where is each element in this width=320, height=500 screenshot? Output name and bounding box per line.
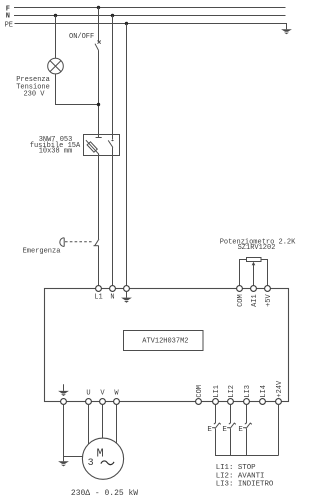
wire U to motor [88, 404, 90, 446]
terminal COM logic [196, 399, 202, 405]
wire LI1 down to contact [215, 404, 217, 423]
svg-text:V: V [100, 390, 105, 398]
svg-text:LI3: LI3 [244, 385, 252, 398]
ground symbol above earth terminal inside block [63, 384, 65, 391]
svg-text:COM: COM [196, 385, 204, 398]
wire emergency to L1 terminal [98, 246, 100, 289]
svg-text:LI1: LI1 [213, 385, 221, 398]
wire F phase bus [14, 7, 286, 9]
wire W to motor [116, 404, 118, 446]
wire LI3 contact to bus [246, 429, 248, 456]
wire PE branch down to drive [126, 24, 128, 289]
svg-text:U: U [86, 390, 90, 398]
node PE junction [125, 22, 128, 25]
svg-text:N: N [6, 13, 10, 21]
svg-text:LI3: INDIETRO: LI3: INDIETRO [216, 481, 274, 489]
ground PE arrow top right [281, 29, 292, 34]
emergency stop S2 mushroom head [60, 238, 99, 247]
pot wiper arrowhead [252, 262, 256, 266]
wire N phase bus [14, 15, 286, 17]
terminal LI1 [213, 399, 219, 405]
terminal U [86, 399, 92, 405]
wire V to motor [102, 404, 104, 440]
terminal LI3 [244, 399, 250, 405]
terminal LI4 [260, 399, 266, 405]
node N junction drive feed [111, 14, 114, 17]
terminal V [100, 399, 106, 405]
terminal LI2 [228, 399, 234, 405]
wire fuse switch out to N terminal [112, 148, 114, 289]
wire LI3 down to contact [246, 404, 248, 423]
node F junction [97, 6, 100, 9]
svg-text:N: N [110, 293, 114, 301]
svg-text:L1: L1 [94, 293, 102, 301]
wire lamp bottom to switch line [56, 74, 99, 105]
wire LI2 contact to bus [230, 429, 232, 456]
wire fuse out to emergency contact [98, 154, 100, 239]
svg-text:W: W [114, 390, 119, 398]
node N junction lamp tap [54, 14, 57, 17]
lamp P1 Presenza Tensione [48, 58, 64, 74]
svg-text:230 V: 230 V [23, 91, 45, 99]
motor M1 [82, 438, 123, 479]
svg-text:M: M [97, 447, 104, 461]
wire ON/OFF to fuse [98, 50, 100, 137]
terminal COM analog [237, 286, 243, 292]
contact E1 for LI1 [212, 422, 221, 428]
emergency stop S2 NC contact blade [95, 239, 99, 246]
svg-text:LI4: LI4 [260, 385, 268, 398]
terminal AI1 [251, 286, 257, 292]
svg-text:ATV12H037M2: ATV12H037M2 [142, 337, 188, 345]
terminal +24V [276, 399, 282, 405]
wire F down to ON/OFF switch [98, 8, 100, 42]
svg-text:10x38 mm: 10x38 mm [39, 148, 73, 156]
wire pot left lead to COM [240, 260, 247, 289]
svg-text:+5V: +5V [265, 293, 273, 306]
svg-text:LI2: AVANTI: LI2: AVANTI [216, 472, 265, 480]
svg-text:COM: COM [237, 294, 245, 307]
wire pot right lead to +5V [261, 260, 268, 289]
emergency stop linkage dashed [65, 241, 94, 243]
wire LI2 down to contact [230, 404, 232, 423]
wire PE bus [15, 24, 287, 30]
svg-text:Emergenza: Emergenza [23, 248, 61, 256]
svg-text:E: E [222, 426, 227, 434]
terminal PE with ground symbol [124, 286, 130, 292]
terminal earth bottom [61, 399, 67, 405]
drive U1 ATV12 block [45, 289, 289, 402]
wire lamp branch from N [55, 16, 57, 59]
wire motor frame to earth [64, 456, 87, 458]
svg-text:+24V: +24V [276, 380, 284, 398]
node junction lamp-switch [97, 103, 100, 106]
svg-text:E: E [238, 426, 243, 434]
wire pot wiper to AI1 [253, 265, 255, 289]
wire +24V down to bus [278, 404, 280, 455]
fuse F1 right pole fixed contact [111, 140, 114, 141]
svg-text:230Δ - 0.25 kW: 230Δ - 0.25 kW [71, 489, 138, 498]
motor tilde [101, 461, 114, 465]
svg-text:AI1: AI1 [251, 294, 259, 307]
potentiometer R1 [240, 258, 268, 289]
terminal W [114, 399, 120, 405]
svg-text:LI2: LI2 [228, 385, 236, 398]
wire earth terminal down [63, 404, 65, 461]
drive U1 inner label box [124, 331, 204, 351]
svg-text:SZ1RV1202: SZ1RV1202 [238, 244, 276, 252]
ground symbol motor earth [58, 461, 69, 466]
wire LI1 contact to bus [216, 429, 279, 456]
terminal L1 [96, 286, 102, 292]
contact E3 for LI3 [243, 422, 252, 428]
fuse F1 right switch blade [108, 140, 113, 147]
wire N branch down to fuse switch [112, 16, 114, 140]
fuse F1 left pole fixed contact T-bar [96, 137, 102, 139]
svg-text:LI1: STOP: LI1: STOP [216, 464, 256, 472]
fuse F1 box [84, 135, 120, 156]
terminal +5V [265, 286, 271, 292]
terminal N [110, 286, 116, 292]
emergency stop S2 fixed contact bar [94, 245, 99, 247]
svg-text:E: E [207, 426, 212, 434]
svg-text:ON/OFF: ON/OFF [69, 33, 94, 41]
contact E2 for LI2 [227, 422, 236, 428]
switch S1 ON/OFF [95, 41, 101, 51]
svg-text:PE: PE [5, 22, 13, 30]
svg-text:3: 3 [88, 458, 94, 469]
fuse F1 blade with fuse body [86, 140, 99, 156]
